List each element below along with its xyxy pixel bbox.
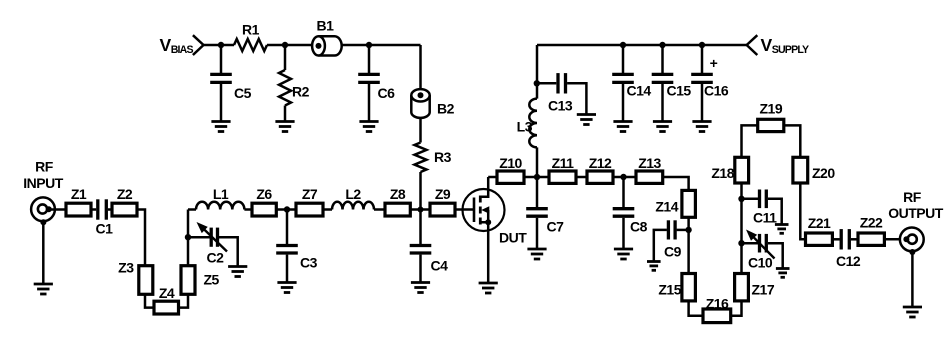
wire bias rail from VBIAS to R1 bbox=[204, 44, 235, 47]
svg-text:C9: C9 bbox=[664, 244, 682, 260]
wire Z1 to C1 bbox=[91, 208, 96, 211]
svg-text:Z22: Z22 bbox=[860, 215, 883, 231]
node supply-C15 bbox=[659, 42, 665, 48]
impedance Z7 bbox=[296, 203, 323, 216]
node bias-C5 bbox=[218, 42, 224, 48]
wire Z20 down to Z21 bbox=[800, 183, 805, 239]
ground RF input bbox=[34, 284, 53, 294]
capacitor C15 bbox=[652, 45, 674, 122]
svg-text:C14: C14 bbox=[627, 83, 652, 99]
ground under C4 bbox=[411, 283, 430, 293]
ground under C9 bbox=[647, 262, 661, 271]
impedance Z8 bbox=[385, 203, 410, 216]
impedance Z14 bbox=[682, 190, 696, 217]
svg-text:Z13: Z13 bbox=[638, 155, 661, 171]
impedance Z2 bbox=[112, 203, 137, 216]
svg-text:Z20: Z20 bbox=[812, 165, 835, 181]
ground under C7 bbox=[527, 249, 546, 259]
wire Z18 to Z19 bbox=[742, 125, 758, 157]
ferrite bead B2 bbox=[411, 89, 429, 118]
svg-text:C13: C13 bbox=[548, 98, 573, 114]
inductor L3 bbox=[529, 99, 537, 148]
impedance Z16 bbox=[703, 309, 731, 323]
svg-text:Z11: Z11 bbox=[552, 155, 575, 171]
wire supply rail bbox=[537, 44, 747, 47]
impedance Z10 bbox=[497, 171, 524, 183]
wire Z5 up to L1 line bbox=[187, 210, 190, 266]
wire corner to L1 bbox=[188, 208, 196, 211]
capacitor C13 bbox=[537, 73, 586, 114]
ground under C6 bbox=[359, 122, 378, 132]
wire Z16 to Z17 bbox=[731, 301, 742, 316]
wire Z6 to Z7 bbox=[276, 208, 296, 211]
wire Z13 to Z14 bbox=[663, 177, 689, 190]
ground under C2 bbox=[228, 267, 247, 277]
wire connector to Z1 bbox=[49, 208, 66, 211]
node bias-C6 bbox=[366, 42, 372, 48]
wire Z22 to output connector bbox=[884, 238, 906, 241]
svg-text:Z4: Z4 bbox=[159, 285, 175, 301]
svg-text:C15: C15 bbox=[667, 83, 692, 99]
impedance Z4 bbox=[154, 301, 179, 314]
svg-text:Z14: Z14 bbox=[655, 199, 678, 215]
ground under C5 bbox=[211, 122, 230, 132]
node C2 tap bbox=[185, 234, 191, 240]
capacitor C11 bbox=[742, 190, 782, 225]
impedance Z5 bbox=[181, 266, 195, 295]
svg-text:C11: C11 bbox=[753, 210, 777, 226]
wire Z11 to Z12 bbox=[576, 176, 587, 179]
svg-text:Z15: Z15 bbox=[658, 282, 681, 298]
svg-text:Z10: Z10 bbox=[499, 155, 522, 171]
svg-text:B2: B2 bbox=[437, 101, 455, 117]
capacitor C8 bbox=[613, 177, 635, 249]
impedance Z13 bbox=[636, 171, 663, 183]
resistor R2 bbox=[279, 45, 291, 122]
svg-text:Z3: Z3 bbox=[118, 260, 134, 276]
wire B1 to C6 node bbox=[342, 44, 421, 47]
svg-text:Z8: Z8 bbox=[390, 186, 406, 202]
impedance Z9 bbox=[430, 203, 455, 216]
ground under C8 bbox=[614, 249, 633, 259]
svg-text:Z18: Z18 bbox=[711, 165, 734, 181]
connector RF INPUT bbox=[31, 197, 55, 221]
node C8 tap bbox=[620, 174, 626, 180]
wire C1 to Z2 bbox=[108, 208, 112, 211]
capacitor C3 bbox=[276, 210, 298, 283]
impedance Z17 bbox=[735, 274, 749, 301]
wire Z15 to Z16 bbox=[689, 301, 703, 316]
svg-text:Z21: Z21 bbox=[808, 215, 831, 231]
wire Z7 to L2 bbox=[323, 208, 332, 211]
wire output connector to ground bbox=[911, 251, 914, 307]
capacitor C1 bbox=[96, 199, 99, 219]
svg-text:+: + bbox=[710, 55, 718, 71]
impedance Z20 bbox=[793, 157, 808, 183]
node connector shell bbox=[40, 219, 46, 225]
ground DUT source bbox=[479, 283, 498, 293]
wire C12 to Z22 bbox=[851, 238, 858, 241]
wire Z14 to Z15 bbox=[687, 217, 690, 273]
node output connector shell bbox=[909, 249, 915, 255]
node bias-R2 bbox=[282, 42, 288, 48]
wire connector to ground bbox=[42, 221, 45, 284]
svg-text:Z2: Z2 bbox=[117, 186, 133, 202]
svg-text:RF: RF bbox=[35, 159, 54, 175]
wire L2 to Z8 bbox=[374, 208, 385, 211]
svg-text:DUT: DUT bbox=[499, 230, 527, 246]
wire Z9 to DUT gate bbox=[455, 208, 474, 211]
label RF INPUT bbox=[23, 159, 63, 192]
inductor L2 bbox=[332, 202, 374, 210]
impedance Z19 bbox=[758, 119, 784, 131]
wire R1 to B1 bbox=[267, 44, 313, 47]
impedance Z3 bbox=[139, 266, 153, 295]
svg-text:C1: C1 bbox=[96, 221, 114, 237]
impedance Z22 bbox=[858, 233, 884, 245]
svg-text:R1: R1 bbox=[242, 22, 260, 38]
svg-text:C5: C5 bbox=[234, 85, 252, 101]
connector RF OUTPUT bbox=[900, 228, 924, 252]
svg-text:Z17: Z17 bbox=[752, 282, 775, 298]
svg-text:Z7: Z7 bbox=[302, 186, 318, 202]
wire Z8 to Z9 bbox=[410, 208, 430, 211]
svg-text:R2: R2 bbox=[292, 84, 310, 100]
ground under C16 bbox=[692, 122, 711, 132]
svg-text:Z12: Z12 bbox=[589, 155, 612, 171]
wire Z3 to Z4 bbox=[145, 294, 154, 307]
svg-text:C6: C6 bbox=[378, 85, 396, 101]
svg-text:Z6: Z6 bbox=[256, 186, 272, 202]
svg-text:Z5: Z5 bbox=[204, 272, 220, 288]
svg-text:C2: C2 bbox=[207, 250, 225, 266]
ferrite bead B1 bbox=[312, 36, 342, 55]
wire L3 node up to supply rail bbox=[536, 45, 539, 99]
wire drain to Z10 bbox=[488, 176, 497, 179]
svg-text:C8: C8 bbox=[630, 219, 648, 235]
ground under C11 bbox=[775, 225, 789, 234]
svg-text:C16: C16 bbox=[704, 83, 729, 99]
ground under C13 bbox=[577, 115, 596, 125]
svg-text:Z16: Z16 bbox=[706, 296, 729, 312]
ground under C10 bbox=[776, 269, 790, 278]
svg-text:C3: C3 bbox=[300, 255, 318, 271]
capacitor C9 bbox=[654, 220, 689, 261]
label RF OUTPUT bbox=[888, 189, 944, 221]
impedance Z6 bbox=[252, 203, 276, 216]
capacitor C2 (variable) bbox=[188, 222, 238, 267]
ground under C3 bbox=[277, 283, 296, 293]
svg-text:RF: RF bbox=[903, 189, 922, 205]
capacitor C7 bbox=[526, 177, 548, 249]
svg-text:L2: L2 bbox=[345, 186, 361, 202]
impedance Z11 bbox=[549, 171, 576, 183]
capacitor C10 (variable) bbox=[742, 230, 783, 269]
wire Z21 to C12 bbox=[832, 238, 839, 241]
ground RF output bbox=[903, 307, 922, 317]
svg-text:INPUT: INPUT bbox=[23, 175, 63, 191]
impedance Z18 bbox=[735, 157, 749, 183]
node C10 tap bbox=[738, 240, 744, 246]
node supply-C14 bbox=[620, 42, 626, 48]
capacitor C14 bbox=[612, 45, 634, 122]
node C13 tap bbox=[534, 80, 540, 86]
node L3/C7 junction bbox=[534, 174, 540, 180]
svg-text:L3: L3 bbox=[517, 119, 533, 135]
impedance Z15 bbox=[682, 274, 696, 301]
svg-text:OUTPUT: OUTPUT bbox=[888, 205, 944, 221]
wire Z4 to Z5 bbox=[179, 294, 189, 307]
ground under C14 bbox=[613, 122, 632, 132]
wire bias corner down to B2 bbox=[419, 45, 422, 90]
impedance Z12 bbox=[587, 171, 613, 183]
svg-text:C7: C7 bbox=[547, 219, 565, 235]
wire Z2 down to Z3 bbox=[137, 210, 145, 266]
transistor DUT (MOSFET) bbox=[463, 177, 505, 283]
svg-text:Z19: Z19 bbox=[759, 101, 782, 117]
wire Z10 to Z11 bbox=[524, 176, 549, 179]
input terminal VBIAS chevron bbox=[193, 35, 204, 55]
capacitor C5 bbox=[210, 45, 232, 122]
inductor L1 bbox=[196, 202, 244, 210]
impedance Z1 bbox=[66, 203, 91, 216]
input terminal VSUPPLY chevron bbox=[747, 35, 758, 55]
svg-text:L1: L1 bbox=[213, 186, 229, 202]
capacitor C4 bbox=[410, 210, 432, 283]
resistor R3 bbox=[415, 118, 427, 210]
ground under C15 bbox=[653, 122, 672, 132]
capacitor C6 bbox=[358, 45, 380, 122]
node supply-C16 bbox=[699, 42, 705, 48]
svg-text:C10: C10 bbox=[748, 255, 773, 271]
svg-text:Z1: Z1 bbox=[71, 186, 87, 202]
svg-text:R3: R3 bbox=[434, 149, 452, 165]
wire L1 to Z6 bbox=[244, 208, 252, 211]
svg-text:Z9: Z9 bbox=[435, 186, 451, 202]
wire L3 to drain line node bbox=[536, 147, 539, 177]
wire Z19 to Z20 bbox=[784, 125, 801, 157]
svg-text:C12: C12 bbox=[836, 253, 861, 269]
node C9 tap bbox=[685, 227, 691, 233]
impedance Z21 bbox=[806, 233, 833, 245]
svg-text:B1: B1 bbox=[317, 18, 335, 34]
capacitor C12 bbox=[840, 229, 843, 249]
capacitor C16 (polarized) bbox=[691, 45, 713, 122]
wire Z17 up to Z18 bbox=[740, 183, 743, 274]
resistor R1 bbox=[234, 39, 267, 51]
wire Z12 to Z13 bbox=[613, 176, 636, 179]
ground under R2 bbox=[275, 122, 294, 132]
svg-text:C4: C4 bbox=[431, 258, 449, 274]
node R3/C4 junction bbox=[418, 207, 424, 213]
node C11 tap bbox=[738, 196, 744, 202]
node C3 tap bbox=[284, 206, 290, 212]
